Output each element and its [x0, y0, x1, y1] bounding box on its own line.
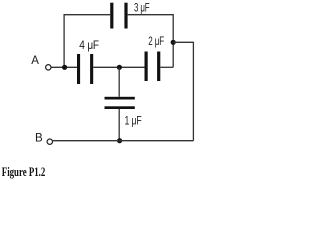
svg-text:1 μF: 1 μF — [125, 116, 142, 128]
terminal B open circle — [47, 139, 52, 144]
junction dot bottom node — [117, 138, 122, 143]
terminal A open circle — [46, 65, 51, 70]
svg-text:4 μF: 4 μF — [79, 40, 99, 52]
capacitor C 3uF plates — [110, 3, 127, 29]
wire: terminal A to C4 left plate — [51, 66, 77, 68]
junction dot center node — [117, 65, 122, 70]
wire: top horizontal right segment (C3 right plate to right corner, down to node) — [128, 15, 174, 68]
wire: C4 right plate to C2 left plate through center node — [93, 66, 144, 68]
svg-text:2 μF: 2 μF — [148, 36, 164, 48]
svg-text:Figure P1.2: Figure P1.2 — [2, 164, 46, 179]
capacitor C 2uF plates — [145, 52, 161, 82]
svg-text:B: B — [35, 132, 43, 144]
wire: C1 bottom plate down to bottom rail — [118, 109, 120, 141]
wire: right node to outer right rail and down to bottom rail — [173, 42, 193, 140]
wire: bottom rail from terminal B to right rail — [53, 140, 194, 142]
junction dot at node A branch — [62, 65, 67, 70]
svg-text:A: A — [31, 55, 39, 67]
wire: C2 right plate to right vertical — [160, 66, 173, 68]
capacitor C 1uF plates — [105, 97, 135, 109]
wire: top horizontal left segment (node A to C3 left plate) — [64, 15, 110, 68]
capacitor C 4uF plates — [77, 54, 93, 84]
svg-text:3 μF: 3 μF — [134, 3, 150, 15]
junction dot right node — [171, 40, 176, 45]
wire: center node down to C1 top plate — [118, 67, 120, 97]
